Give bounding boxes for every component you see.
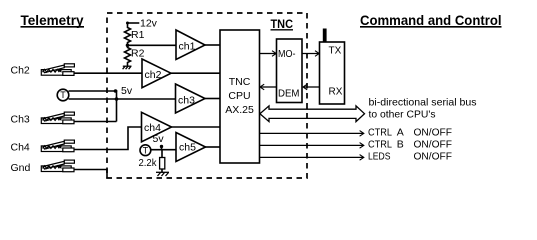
- label Ch4: [11, 142, 30, 154]
- svg-text:Command and Control: Command and Control: [360, 13, 502, 28]
- wire ch4 output to TNC CPU: [172, 126, 221, 128]
- svg-text:ch3: ch3: [178, 95, 195, 107]
- heading Telemetry: [21, 12, 84, 28]
- node 5v stub on T2 wire: [161, 147, 163, 150]
- wire ch5 output to TNC CPU: [206, 146, 221, 148]
- label CTRL B ON/OFF: [368, 138, 452, 150]
- wire T2 to ch5 input: [151, 149, 177, 151]
- label CTRL A ON/OFF: [368, 127, 452, 139]
- svg-text:12v: 12v: [140, 18, 158, 30]
- resistor R1: [125, 23, 131, 45]
- svg-text:5v: 5v: [121, 85, 133, 97]
- svg-text:CTRL: CTRL: [368, 127, 392, 139]
- antenna: [323, 29, 327, 43]
- svg-text:ON/OFF: ON/OFF: [414, 150, 453, 162]
- op-amp ch5: [176, 133, 206, 162]
- op-amp ch2: [142, 59, 171, 88]
- ground (below R2): [123, 66, 132, 69]
- svg-text:MO-: MO-: [278, 49, 296, 60]
- label bi-directional serial bus: [369, 97, 477, 121]
- wire/arrow LEDS: [260, 155, 364, 161]
- wire ch3 output to TNC CPU: [205, 98, 220, 100]
- wire T1 to 5v node: [69, 90, 116, 92]
- svg-text:Ch2: Ch2: [11, 65, 30, 77]
- svg-text:AX.25: AX.25: [225, 104, 254, 116]
- wire/arrow CTRL A: [260, 131, 364, 137]
- wire/arrow DEM to TNC: [260, 84, 276, 90]
- svg-text:B: B: [397, 138, 404, 150]
- svg-text:ON/OFF: ON/OFF: [414, 138, 453, 150]
- svg-text:ch1: ch1: [179, 41, 196, 53]
- svg-text:ch5: ch5: [179, 142, 196, 154]
- op-amp ch1: [176, 30, 205, 60]
- alligator clip Ch3: [41, 112, 74, 124]
- wire Ch4 to ch4 input: [74, 127, 142, 150]
- wire vertical 5v node to Ch3 row: [116, 91, 117, 122]
- wire/arrow MO- to TX: [302, 51, 319, 57]
- wire T1 lower terminal to ch3 input: [69, 98, 176, 100]
- wire R1/R2 junction to ch1 input: [128, 44, 177, 46]
- svg-text:ON/OFF: ON/OFF: [414, 127, 453, 139]
- svg-text:Ch4: Ch4: [11, 142, 30, 154]
- wire ch1 output to TNC CPU: [205, 44, 220, 46]
- wire Ch3 to riser: [74, 121, 117, 123]
- op-amp ch4: [142, 112, 172, 142]
- label Ch2: [11, 65, 30, 77]
- label LEDS ON/OFF: [368, 150, 452, 162]
- svg-text:A: A: [397, 127, 404, 139]
- label Ch3: [11, 114, 30, 126]
- alligator clip Gnd: [41, 160, 74, 172]
- svg-text:R1: R1: [131, 29, 145, 41]
- alligator clip Ch2: [41, 64, 74, 76]
- node ch3 input junction: [115, 97, 119, 101]
- svg-text:RX: RX: [329, 87, 343, 98]
- wire Gnd to enclosure: [74, 170, 107, 179]
- resistor 2.2k: [161, 150, 163, 158]
- label TNC (inside dashed box): [271, 19, 294, 31]
- svg-text:Gnd: Gnd: [11, 162, 31, 174]
- svg-text:CTRL: CTRL: [368, 138, 392, 150]
- wire/arrow CTRL B: [260, 143, 364, 149]
- svg-text:TX: TX: [329, 46, 342, 57]
- bi-directional serial bus double arrow: [260, 106, 365, 122]
- wire Ch2 to ch2 input: [74, 72, 142, 74]
- wire/arrow TNC to MO-: [260, 51, 277, 57]
- svg-text:bi-directional serial bus: bi-directional serial bus: [369, 97, 477, 109]
- dashed TNC enclosure box: [107, 13, 307, 178]
- node 5v pullup: [114, 89, 118, 93]
- ground (below 2.2k): [156, 172, 169, 176]
- svg-text:T: T: [143, 146, 149, 156]
- heading Command and Control: [360, 13, 502, 28]
- wire/arrow RX to DEM: [303, 84, 320, 90]
- svg-text:R2: R2: [131, 48, 145, 60]
- resistor R2: [125, 45, 131, 66]
- IC TNC CPU AX.25: [220, 30, 260, 163]
- svg-text:CPU: CPU: [228, 90, 250, 102]
- svg-text:LEDS: LEDS: [368, 150, 391, 162]
- svg-text:TNC: TNC: [229, 76, 251, 88]
- svg-text:2.2k: 2.2k: [139, 157, 158, 169]
- svg-text:DEM: DEM: [278, 89, 300, 100]
- thermistor T1: [57, 89, 69, 101]
- node 12v supply: [128, 22, 140, 24]
- modem MO-/DEM box: [277, 39, 303, 103]
- svg-text:ch4: ch4: [144, 122, 161, 134]
- label Gnd: [11, 162, 31, 174]
- svg-text:ch2: ch2: [145, 69, 162, 81]
- svg-text:5v: 5v: [153, 133, 165, 145]
- node R1-R2 junction: [126, 44, 130, 48]
- op-amp ch3: [176, 84, 206, 113]
- wire ch2 output to TNC CPU: [171, 72, 220, 74]
- svg-text:T: T: [60, 90, 66, 100]
- alligator clip Ch4: [41, 140, 74, 152]
- thermistor T2: [140, 145, 151, 156]
- svg-text:Telemetry: Telemetry: [21, 12, 84, 28]
- svg-text:Ch3: Ch3: [11, 114, 30, 126]
- svg-text:to other CPU's: to other CPU's: [369, 109, 436, 121]
- radio TX/RX box: [320, 42, 345, 104]
